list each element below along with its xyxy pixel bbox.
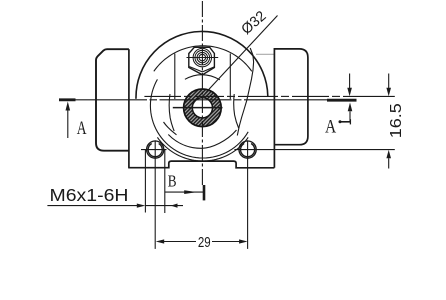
svg-text:16.5: 16.5 [388, 103, 405, 138]
svg-text:29: 29 [198, 234, 211, 251]
svg-text:A: A [77, 119, 87, 139]
svg-text:A: A [325, 116, 336, 137]
svg-text:M6x1-6H: M6x1-6H [50, 185, 129, 205]
svg-text:B: B [168, 172, 177, 191]
